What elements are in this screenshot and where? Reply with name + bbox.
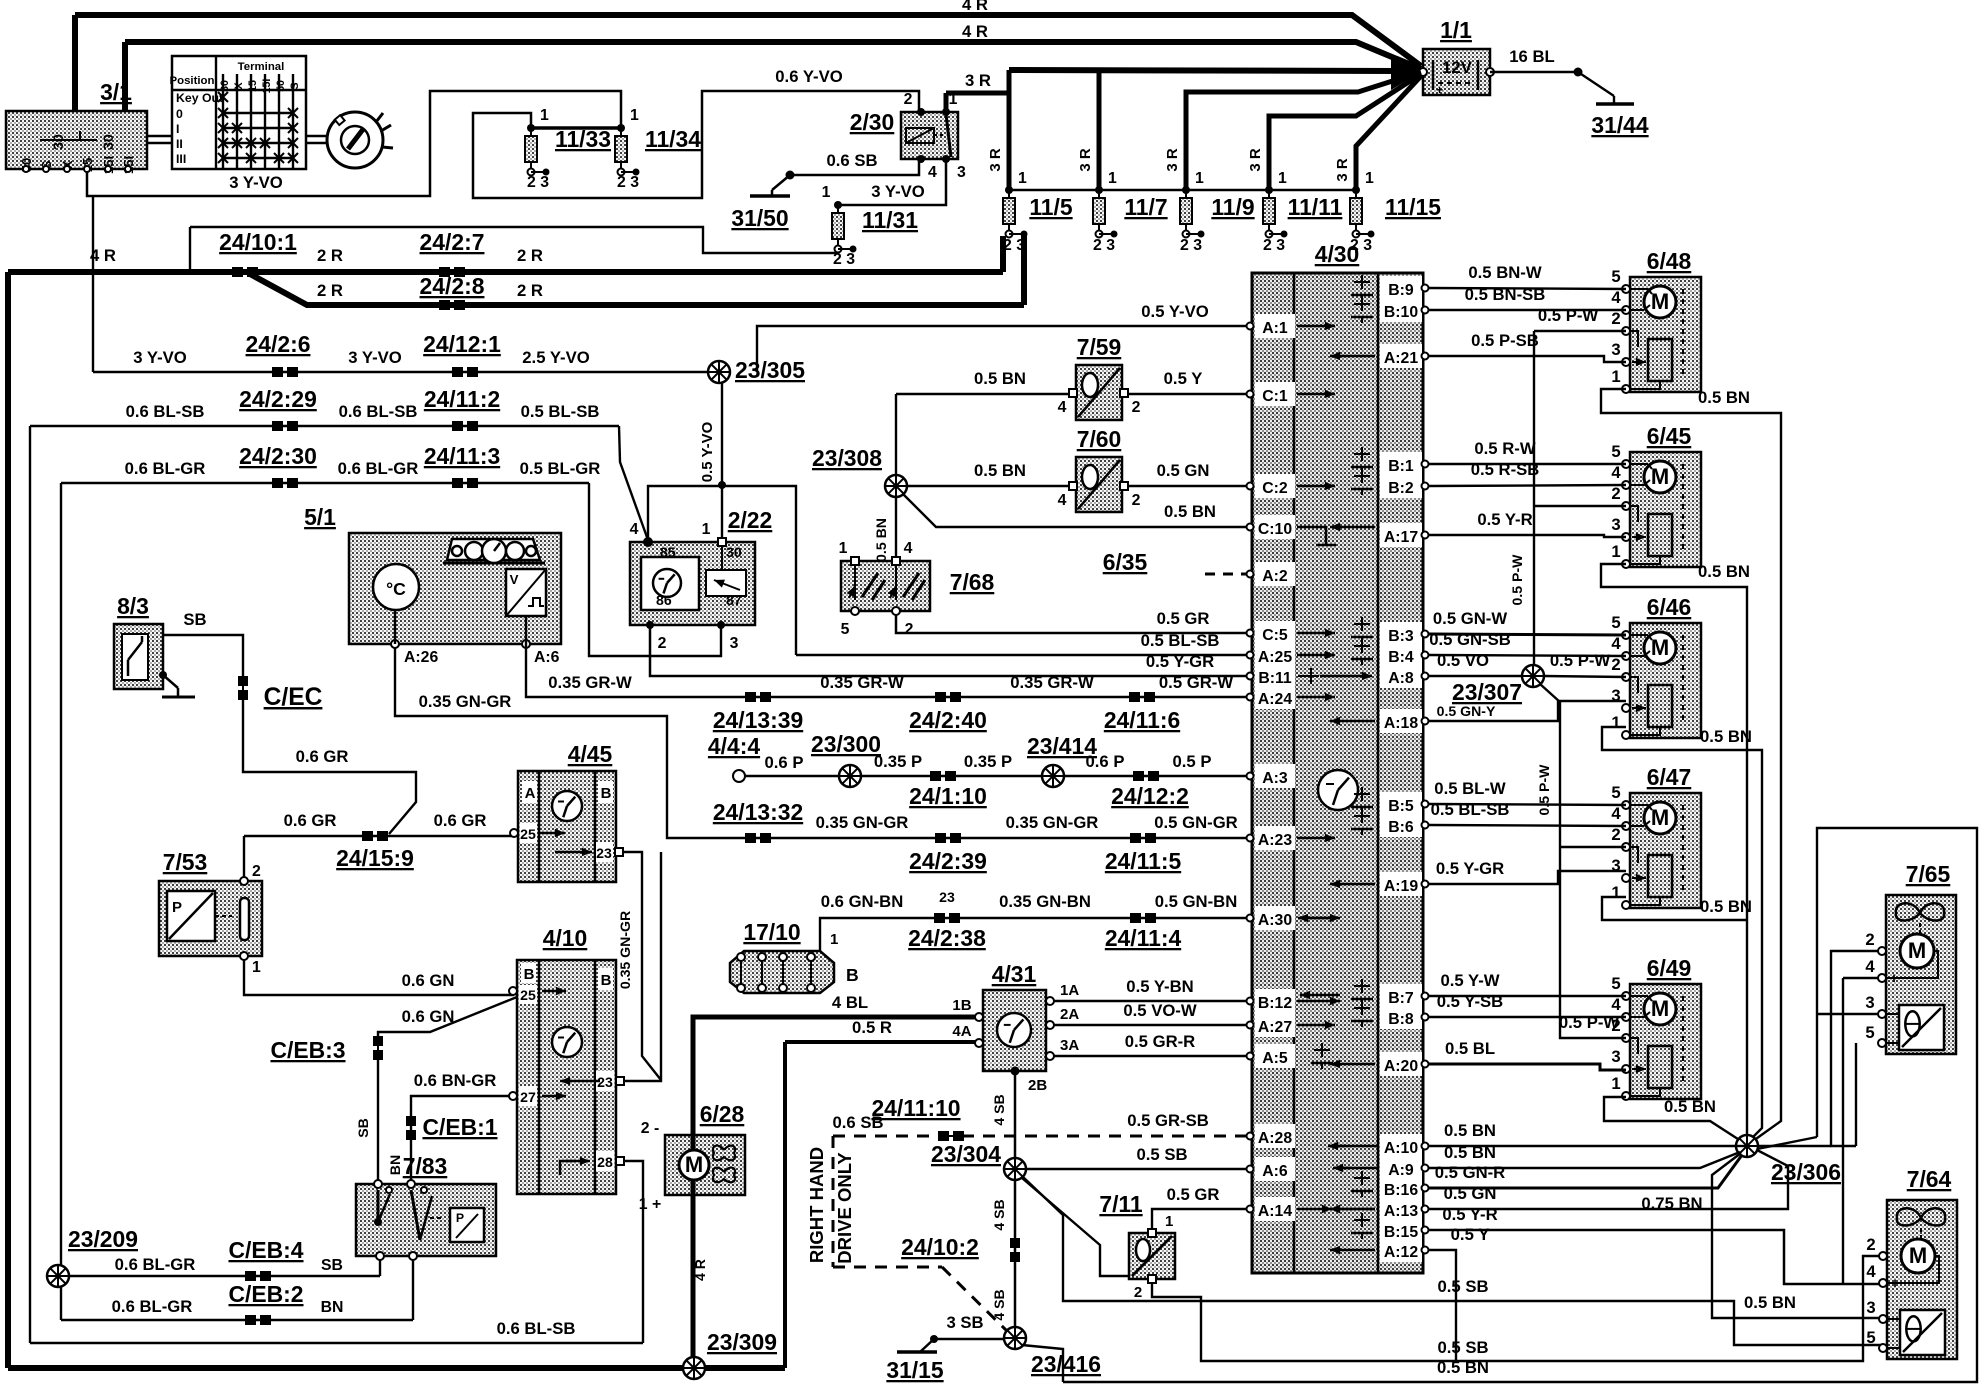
wire fuse pin1 link bbox=[1009, 189, 1356, 191]
wire 0.5 BN-SB B:10 to 6/48 bbox=[1429, 309, 1626, 311]
svg-text:0.5 VO: 0.5 VO bbox=[1437, 651, 1489, 670]
svg-text:24/13:32: 24/13:32 bbox=[713, 799, 803, 825]
pin C:10 of 4/30 bbox=[1255, 515, 1295, 539]
wire 0.5 GN-R B:16 to 23/306 bbox=[1429, 1155, 1742, 1188]
fuse 11/9 bbox=[1180, 186, 1205, 238]
svg-text:1A: 1A bbox=[1060, 982, 1079, 999]
wire 0.5 BN 6/48 pin1 bbox=[1601, 389, 1781, 1141]
svg-text:4 SB: 4 SB bbox=[991, 1289, 1007, 1320]
svg-text:11/9: 11/9 bbox=[1211, 194, 1254, 220]
ground 31/44 bbox=[1596, 102, 1634, 106]
svg-text:3 R: 3 R bbox=[1164, 148, 1181, 172]
wire BL-GR down to 2/22 pin3 bbox=[589, 483, 721, 656]
svg-text:3: 3 bbox=[957, 164, 966, 181]
svg-text:6/45: 6/45 bbox=[1647, 423, 1692, 449]
svg-text:2: 2 bbox=[1611, 825, 1620, 844]
svg-text:0.5 BN: 0.5 BN bbox=[1444, 1121, 1496, 1140]
svg-text:7/53: 7/53 bbox=[163, 849, 208, 875]
svg-text:0.6 GN: 0.6 GN bbox=[402, 1007, 455, 1026]
wire 0.5 P-W branch to 6/45 pin2 bbox=[1534, 505, 1626, 507]
pin A:25 of 4/30 bbox=[1255, 643, 1295, 667]
svg-text:24/11:10: 24/11:10 bbox=[871, 1095, 960, 1121]
fuse 11/5 bbox=[1003, 186, 1028, 238]
wire 0.5 GR-R 3A to A:5 bbox=[1054, 1055, 1248, 1057]
svg-text:4: 4 bbox=[928, 164, 937, 181]
svg-text:24/12:2: 24/12:2 bbox=[1111, 783, 1189, 809]
svg-text:0.5 SB: 0.5 SB bbox=[1437, 1277, 1488, 1296]
svg-text:24/2:39: 24/2:39 bbox=[909, 848, 987, 874]
ground for 8/3 bbox=[159, 671, 167, 679]
svg-text:24/11:5: 24/11:5 bbox=[1105, 848, 1182, 874]
fuse 11/11 bbox=[1263, 186, 1288, 238]
connector 24/2:6 bbox=[272, 367, 298, 377]
svg-text:11/5: 11/5 bbox=[1029, 194, 1073, 220]
svg-text:M: M bbox=[1908, 938, 1926, 963]
pin B:11 of 4/30 bbox=[1255, 664, 1295, 688]
svg-text:A:14: A:14 bbox=[1258, 1203, 1292, 1220]
wire 4 R 6/28 to bottom bus bbox=[691, 1195, 696, 1368]
grommet 23/307 bbox=[1522, 665, 1544, 687]
svg-text:B:12: B:12 bbox=[1258, 995, 1292, 1012]
wire 11/5 pin3 to bus2 bbox=[1021, 236, 1027, 305]
svg-text:1: 1 bbox=[540, 107, 549, 124]
svg-text:7/65: 7/65 bbox=[1906, 861, 1951, 887]
wire 3R 11/5 up bbox=[1007, 70, 1012, 190]
pin B:5 of 4/30 bbox=[1380, 792, 1422, 816]
wire 3 Y-VO row to 23/305 bbox=[92, 196, 94, 372]
svg-text:0.5 Y: 0.5 Y bbox=[1451, 1225, 1490, 1244]
dashed 0.5 GR-SB to A:28 bbox=[962, 1135, 1246, 1138]
svg-text:0.5 Y-VO: 0.5 Y-VO bbox=[699, 421, 716, 482]
svg-text:23/305: 23/305 bbox=[735, 357, 805, 383]
wire 0.35 GR-W row A:6 to A:24 bbox=[526, 644, 1248, 697]
svg-text:0.5 BN: 0.5 BN bbox=[1664, 1097, 1716, 1116]
pin A:18 of 4/30 bbox=[1380, 709, 1422, 733]
svg-text:3: 3 bbox=[1611, 1047, 1620, 1066]
svg-text:0.5 BN: 0.5 BN bbox=[1437, 1358, 1489, 1377]
svg-text:24/2:6: 24/2:6 bbox=[246, 331, 311, 357]
svg-text:2: 2 bbox=[1611, 655, 1620, 674]
svg-text:5: 5 bbox=[1611, 974, 1620, 993]
wire 0.6 BL-GR row bbox=[61, 482, 589, 484]
wire 0.5 BN 23/308 to 7/60 bbox=[907, 485, 1069, 487]
wire 23/306 right ray to 7/65 pin2 bbox=[1831, 951, 1882, 1146]
wire 0.5 R down to bottom bus bbox=[783, 1042, 787, 1368]
svg-text:0.35 GR-W: 0.35 GR-W bbox=[1010, 673, 1094, 692]
ground 31/50 bbox=[786, 171, 795, 180]
svg-text:A:27: A:27 bbox=[1258, 1019, 1292, 1036]
wire 0.5 P-W branch 6/47 pin2 bbox=[1560, 846, 1626, 848]
wire 0.5 GN-SB B:4 to 6/46 bbox=[1429, 655, 1626, 656]
svg-text:3: 3 bbox=[1611, 515, 1620, 534]
wire 0.5 P-SB A:21 to 6/48 pin3 bbox=[1429, 356, 1626, 362]
svg-text:4: 4 bbox=[630, 521, 639, 538]
svg-text:23/309: 23/309 bbox=[707, 1329, 777, 1355]
wire 0.5 BN vertical 23/308 bbox=[895, 394, 897, 557]
wire ignition pin30 feed 1 bbox=[72, 15, 78, 113]
svg-text:°C: °C bbox=[386, 579, 406, 599]
svg-text:RIGHT HAND: RIGHT HAND bbox=[806, 1147, 827, 1263]
svg-text:0.5 BN: 0.5 BN bbox=[974, 461, 1026, 480]
pin B:1 of 4/30 bbox=[1380, 452, 1422, 476]
svg-text:1: 1 bbox=[1611, 367, 1620, 386]
svg-text:SB: SB bbox=[355, 1118, 371, 1138]
svg-text:4/30: 4/30 bbox=[1315, 241, 1360, 267]
wire 0.5 BN-W B:9 to 6/48 bbox=[1429, 288, 1626, 289]
svg-text:Position: Position bbox=[170, 75, 215, 87]
wire 4R second bus to battery bbox=[125, 42, 1421, 69]
svg-text:0.6 GN: 0.6 GN bbox=[402, 971, 455, 990]
svg-text:24/2:40: 24/2:40 bbox=[909, 707, 987, 733]
svg-text:0.5 BN: 0.5 BN bbox=[1444, 1143, 1496, 1162]
svg-text:4: 4 bbox=[1058, 492, 1067, 509]
grommet 23/209 bbox=[47, 1265, 69, 1287]
svg-text:5: 5 bbox=[1611, 613, 1620, 632]
wire 0.5 BL-SB B:6 to 6/47 bbox=[1429, 825, 1626, 826]
pin B:9 of 4/30 bbox=[1380, 276, 1422, 300]
fuse 11/31 bbox=[832, 201, 857, 253]
svg-text:2: 2 bbox=[1134, 1284, 1142, 1301]
wire 0.6 GR from C/EC bbox=[243, 700, 416, 834]
svg-text:SB: SB bbox=[183, 610, 206, 629]
svg-text:B: B bbox=[601, 972, 612, 989]
svg-text:0.5 P-SB: 0.5 P-SB bbox=[1471, 331, 1539, 350]
wire 23/304 branch to SB row bbox=[1023, 1177, 1883, 1345]
svg-text:7/83: 7/83 bbox=[403, 1153, 448, 1179]
svg-text:4 SB: 4 SB bbox=[991, 1199, 1007, 1230]
svg-text:2 R: 2 R bbox=[517, 281, 543, 300]
svg-text:B:5: B:5 bbox=[1388, 798, 1414, 815]
svg-text:0.5 R: 0.5 R bbox=[852, 1018, 892, 1037]
svg-text:0.5 BN: 0.5 BN bbox=[1700, 727, 1752, 746]
grommet 23/305 bbox=[708, 361, 730, 383]
wire 11/5 pin2 to bus1 bbox=[1000, 236, 1006, 272]
svg-text:17/10: 17/10 bbox=[743, 919, 800, 945]
svg-text:12V: 12V bbox=[1442, 58, 1473, 77]
svg-text:0.5 GN-GR: 0.5 GN-GR bbox=[1154, 813, 1237, 832]
connector 24/10:1 bbox=[232, 267, 258, 277]
C:10 internal ground mark bbox=[1297, 527, 1326, 545]
grommet 23/308 bbox=[885, 475, 907, 497]
wire 0.5 P-W vertical bbox=[1533, 331, 1535, 665]
wire 0.5 BN frame bracket around 7/65 bbox=[1063, 828, 1977, 1382]
wire 7/11 pin2 to 0.5 SB row bbox=[1152, 1256, 1883, 1361]
svg-text:0.5 P-W: 0.5 P-W bbox=[1509, 554, 1525, 606]
svg-text:2 R: 2 R bbox=[517, 246, 543, 265]
grommet 23/304 bbox=[1004, 1158, 1026, 1180]
svg-text:0.6 BL-GR: 0.6 BL-GR bbox=[115, 1255, 196, 1274]
svg-text:3 R: 3 R bbox=[1247, 148, 1264, 172]
wire 4 SB from 4/31 down bbox=[1014, 1071, 1017, 1327]
svg-text:24/1:10: 24/1:10 bbox=[909, 783, 987, 809]
wire 11/33 branch bbox=[473, 91, 919, 198]
svg-text:3A: 3A bbox=[1060, 1037, 1079, 1054]
svg-text:31/15: 31/15 bbox=[886, 1357, 944, 1383]
wire 0.5 Y-R B:15 to 7/64 pin4 bbox=[1429, 1230, 1883, 1284]
svg-text:0.5 GR-W: 0.5 GR-W bbox=[1159, 673, 1233, 692]
fuse 11/15 bbox=[1350, 186, 1375, 238]
connector 24/11:2 bbox=[452, 421, 478, 431]
pin A:21 of 4/30 bbox=[1380, 344, 1422, 368]
svg-text:2 R: 2 R bbox=[317, 281, 343, 300]
svg-text:4/4:4: 4/4:4 bbox=[708, 733, 760, 759]
clock symbol inside 4/30 bbox=[1318, 770, 1358, 810]
pin C:2 of 4/30 bbox=[1255, 474, 1295, 498]
svg-text:4: 4 bbox=[1866, 1262, 1876, 1281]
pin A:3 of 4/30 bbox=[1255, 764, 1295, 788]
svg-text:A:21: A:21 bbox=[1384, 350, 1418, 367]
svg-text:3: 3 bbox=[1611, 340, 1620, 359]
svg-text:4: 4 bbox=[1611, 995, 1621, 1014]
svg-text:A:24: A:24 bbox=[1258, 691, 1292, 708]
svg-text:4 R: 4 R bbox=[962, 22, 988, 41]
svg-text:7/68: 7/68 bbox=[950, 569, 995, 595]
wire 4/10 pin23 link bbox=[624, 852, 661, 1081]
svg-text:6/28: 6/28 bbox=[700, 1101, 745, 1127]
fuse 11/33 bbox=[525, 124, 550, 176]
svg-text:24/2:29: 24/2:29 bbox=[239, 386, 317, 412]
svg-text:0.75 BN: 0.75 BN bbox=[1641, 1194, 1702, 1213]
svg-text:2A: 2A bbox=[1060, 1006, 1079, 1023]
svg-text:2: 2 bbox=[1132, 492, 1141, 509]
svg-text:0.6 GR: 0.6 GR bbox=[434, 811, 487, 830]
svg-text:1: 1 bbox=[830, 931, 838, 948]
svg-text:2 3: 2 3 bbox=[1180, 237, 1202, 254]
svg-text:0.5 Y-W: 0.5 Y-W bbox=[1440, 971, 1499, 990]
svg-text:3: 3 bbox=[1866, 1298, 1875, 1317]
wire 0.5 BL A:20 to 6/49 pin3 bbox=[1429, 1064, 1626, 1070]
svg-text:4: 4 bbox=[1611, 288, 1621, 307]
connector 24/12:2 bbox=[1133, 771, 1159, 781]
svg-text:0.6 BL-SB: 0.6 BL-SB bbox=[339, 402, 418, 421]
svg-text:A:26: A:26 bbox=[404, 649, 438, 666]
B:11 internal arrow to A:8 bbox=[1298, 675, 1305, 677]
svg-text:0.6 BL-GR: 0.6 BL-GR bbox=[112, 1297, 193, 1316]
svg-text:0.6 Y-VO: 0.6 Y-VO bbox=[775, 67, 842, 86]
svg-text:24/15:9: 24/15:9 bbox=[336, 845, 414, 871]
svg-text:0.5 GN: 0.5 GN bbox=[1157, 461, 1210, 480]
wire 4 BL 6/28 to 4/31 bbox=[693, 1017, 975, 1135]
svg-text:30: 30 bbox=[726, 544, 742, 560]
wire 2/30 3R branch bbox=[946, 91, 1009, 96]
pin A:24 of 4/30 bbox=[1255, 685, 1295, 709]
pin B:16 of 4/30 bbox=[1380, 1176, 1422, 1200]
connector 24/10:2 bbox=[1010, 1238, 1020, 1262]
wire 0.5 GN-W B:3 to 6/46 bbox=[1429, 634, 1626, 635]
wire 0.5 BN 6/46 pin1 bbox=[1602, 727, 1762, 1139]
svg-text:30: 30 bbox=[100, 134, 116, 150]
svg-text:M: M bbox=[685, 1152, 703, 1177]
pin C:1 of 4/30 bbox=[1255, 382, 1295, 406]
svg-text:3 Y-VO: 3 Y-VO bbox=[871, 182, 925, 201]
wire 0.5 Y A:12 down bbox=[1429, 1250, 1456, 1361]
svg-text:0.5 GR: 0.5 GR bbox=[1157, 609, 1210, 628]
svg-text:0.5 BL-W: 0.5 BL-W bbox=[1434, 779, 1506, 798]
svg-text:BN: BN bbox=[387, 1155, 403, 1175]
svg-text:2/22: 2/22 bbox=[728, 507, 773, 533]
svg-text:5/1: 5/1 bbox=[304, 504, 336, 530]
svg-text:0.5 P: 0.5 P bbox=[1173, 752, 1212, 771]
svg-text:4: 4 bbox=[1611, 463, 1621, 482]
svg-text:3/1: 3/1 bbox=[100, 79, 132, 105]
wire 0.6 GN 7/53 pin1 to 4/10 pin25 bbox=[244, 960, 514, 995]
wire 3R 11/9 up bbox=[1186, 72, 1421, 190]
svg-text:2 -: 2 - bbox=[641, 1120, 659, 1137]
svg-text:M: M bbox=[1651, 805, 1669, 830]
wire 0.5 BN 6/47 pin1 bbox=[1602, 897, 1747, 920]
svg-text:C/EC: C/EC bbox=[264, 684, 323, 711]
svg-text:B: B bbox=[524, 966, 535, 983]
svg-text:30: 30 bbox=[50, 134, 66, 150]
svg-text:A:2: A:2 bbox=[1262, 568, 1288, 585]
svg-text:1: 1 bbox=[822, 184, 831, 201]
svg-text:0.5 R-SB: 0.5 R-SB bbox=[1471, 460, 1540, 479]
svg-text:P: P bbox=[172, 899, 182, 916]
svg-text:C:5: C:5 bbox=[1262, 627, 1288, 644]
svg-text:0.5 Y-GR: 0.5 Y-GR bbox=[1436, 859, 1504, 878]
svg-text:4: 4 bbox=[1058, 399, 1067, 416]
svg-text:2 3: 2 3 bbox=[617, 174, 639, 191]
svg-text:0.35 GN-GR: 0.35 GN-GR bbox=[1006, 813, 1099, 832]
svg-text:0.5 P-W: 0.5 P-W bbox=[1536, 764, 1552, 816]
svg-text:6/48: 6/48 bbox=[1647, 248, 1692, 274]
svg-text:B:6: B:6 bbox=[1388, 819, 1414, 836]
wire 0.5 VO-W 2A to A:27 bbox=[1054, 1024, 1248, 1026]
pin B:4 of 4/30 bbox=[1380, 643, 1422, 667]
svg-text:1: 1 bbox=[1611, 1074, 1620, 1093]
svg-text:0.5 P-W: 0.5 P-W bbox=[1538, 306, 1599, 325]
svg-text:4/31: 4/31 bbox=[992, 961, 1037, 987]
svg-text:A:10: A:10 bbox=[1384, 1140, 1418, 1157]
svg-text:2 3: 2 3 bbox=[1263, 237, 1285, 254]
svg-text:0.5 GN-W: 0.5 GN-W bbox=[1433, 609, 1507, 628]
svg-text:86: 86 bbox=[656, 592, 672, 608]
svg-text:24/12:1: 24/12:1 bbox=[423, 331, 501, 357]
svg-text:11/7: 11/7 bbox=[1124, 194, 1167, 220]
wire 3 SB to 23/416 bbox=[934, 1338, 1004, 1340]
svg-text:0.5 SB: 0.5 SB bbox=[1136, 1145, 1187, 1164]
pin A:30 of 4/30 bbox=[1255, 906, 1295, 930]
svg-text:C/EB:1: C/EB:1 bbox=[422, 1114, 497, 1140]
wire 7/65 pin5 down bbox=[1855, 1043, 1857, 1146]
svg-text:1: 1 bbox=[630, 107, 639, 124]
pin A:23 of 4/30 bbox=[1255, 826, 1295, 850]
svg-text:0.35 GR-W: 0.35 GR-W bbox=[820, 673, 904, 692]
svg-text:7/64: 7/64 bbox=[1907, 1166, 1952, 1192]
pin B:6 of 4/30 bbox=[1380, 813, 1422, 837]
wire 7/65 pin3 to bracket bbox=[1817, 1013, 1882, 1015]
svg-text:3 Y-VO: 3 Y-VO bbox=[133, 348, 187, 367]
wire 0.5 BN A:10 to 23/306 bbox=[1429, 1145, 1736, 1147]
connector 24/2:30 bbox=[272, 478, 298, 488]
svg-text:0.5 Y-R: 0.5 Y-R bbox=[1477, 510, 1532, 529]
svg-text:0.6 P: 0.6 P bbox=[1086, 752, 1125, 771]
svg-text:A:17: A:17 bbox=[1384, 529, 1418, 546]
grommet 23/309 bbox=[683, 1357, 705, 1379]
svg-text:0.5 BN: 0.5 BN bbox=[1698, 388, 1750, 407]
wire BL-SB diagonal to 2/22 pin4 bbox=[619, 426, 648, 540]
wire 0.5 Y-VO to A:1 bbox=[757, 326, 1248, 372]
svg-text:15: 15 bbox=[247, 80, 259, 92]
pin A:17 of 4/30 bbox=[1380, 523, 1422, 547]
svg-text:2/30: 2/30 bbox=[850, 109, 895, 135]
pin A:2 of 4/30 bbox=[1255, 562, 1295, 586]
svg-text:2: 2 bbox=[658, 635, 667, 652]
pin B:12 of 4/30 bbox=[1255, 989, 1295, 1013]
wire 23/306 to 7/64 pin3 bbox=[1712, 1153, 1883, 1318]
svg-text:2: 2 bbox=[252, 863, 261, 880]
wire A:6 lead bbox=[525, 616, 527, 644]
svg-text:C:1: C:1 bbox=[1262, 388, 1288, 405]
svg-text:5: 5 bbox=[841, 621, 850, 638]
svg-text:7/59: 7/59 bbox=[1077, 334, 1122, 360]
svg-text:6/47: 6/47 bbox=[1647, 764, 1692, 790]
wire 3 Y-VO ignition X pin bbox=[87, 91, 621, 196]
svg-text:2: 2 bbox=[1611, 309, 1620, 328]
wire 0.5 Y-W B:7 to 6/49 bbox=[1429, 995, 1626, 997]
svg-text:0.5 GR-R: 0.5 GR-R bbox=[1125, 1032, 1195, 1051]
svg-text:0.5 P-W: 0.5 P-W bbox=[1550, 651, 1611, 670]
pin A:13 of 4/30 bbox=[1380, 1197, 1422, 1221]
wire 0.5 GN-Y A:18 to 6/46 pin3 bbox=[1429, 701, 1626, 721]
svg-text:DRIVE ONLY: DRIVE ONLY bbox=[834, 1152, 855, 1264]
wire 0.5 GN 7/60 to C:2 bbox=[1128, 485, 1248, 487]
wire 0.5 Y-SB B:8 to 6/49 bbox=[1429, 1016, 1626, 1018]
svg-text:0.6 P: 0.6 P bbox=[765, 753, 804, 772]
svg-text:2: 2 bbox=[1866, 1235, 1875, 1254]
pin B:8 of 4/30 bbox=[1380, 1005, 1422, 1029]
svg-text:0.5 BL: 0.5 BL bbox=[1445, 1039, 1495, 1058]
pin A:5 of 4/30 bbox=[1255, 1044, 1295, 1068]
svg-text:0.35 GR-W: 0.35 GR-W bbox=[548, 673, 632, 692]
svg-text:3 R: 3 R bbox=[987, 148, 1004, 172]
svg-text:0.5 BL-GR: 0.5 BL-GR bbox=[520, 459, 601, 478]
svg-text:50: 50 bbox=[275, 80, 287, 92]
pin B:3 of 4/30 bbox=[1380, 622, 1422, 646]
svg-text:B:9: B:9 bbox=[1388, 282, 1414, 299]
svg-text:85: 85 bbox=[660, 544, 676, 560]
svg-text:24/2:30: 24/2:30 bbox=[239, 443, 317, 469]
wire loop below 11/31 bbox=[190, 227, 838, 253]
wire 0.6 BL-GR to C/EB:4 bbox=[69, 1275, 380, 1277]
wire P chain to A:3 bbox=[745, 775, 1248, 777]
svg-text:0.5 BN: 0.5 BN bbox=[873, 518, 889, 562]
wire 0.5 P-W 23/307 to 6/46 pin2 bbox=[1544, 676, 1626, 677]
svg-text:4/45: 4/45 bbox=[568, 741, 613, 767]
wire GN-BN row to A:30 bbox=[820, 918, 1248, 951]
pin A:9 of 4/30 bbox=[1380, 1156, 1422, 1180]
svg-text:24/2:38: 24/2:38 bbox=[908, 925, 986, 951]
svg-text:31/44: 31/44 bbox=[1591, 112, 1649, 138]
svg-text:0.35 GN-GR: 0.35 GN-GR bbox=[419, 692, 512, 711]
svg-text:BN: BN bbox=[321, 1299, 344, 1316]
svg-text:0.5 GN-SB: 0.5 GN-SB bbox=[1429, 630, 1511, 649]
svg-text:1: 1 bbox=[702, 521, 711, 538]
svg-text:P: P bbox=[456, 1211, 464, 1225]
wire 0.6 GR row to 4/45 bbox=[244, 835, 514, 837]
svg-text:2: 2 bbox=[905, 621, 914, 638]
svg-text:0.6 BL-GR: 0.6 BL-GR bbox=[125, 459, 206, 478]
wire 0.6 SB to 2/30 pin4 bbox=[790, 159, 919, 175]
svg-text:0.6 BL-SB: 0.6 BL-SB bbox=[126, 402, 205, 421]
svg-text:5: 5 bbox=[1611, 267, 1620, 286]
wire 4R top bus to battery bbox=[75, 15, 1421, 66]
svg-text:0: 0 bbox=[176, 107, 183, 121]
wire 0.5 Y-VO down to 2/22 pin1 bbox=[721, 383, 723, 538]
wire 0.5 BN 23/308 to C:10 bbox=[903, 494, 1248, 527]
svg-text:24/11:4: 24/11:4 bbox=[1105, 925, 1182, 951]
svg-text:0.6 BL-GR: 0.6 BL-GR bbox=[338, 459, 419, 478]
